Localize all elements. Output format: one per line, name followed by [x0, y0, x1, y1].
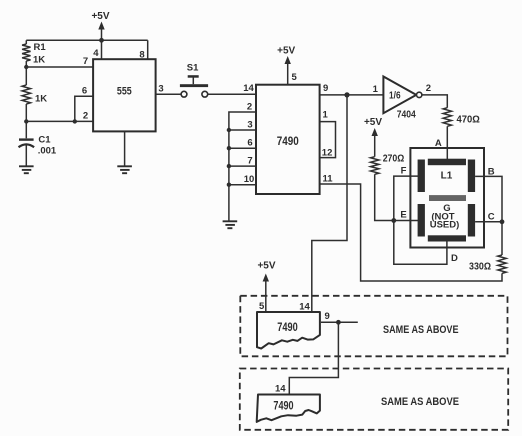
- wire pin 9 down to second counter pin 14: [312, 95, 347, 313]
- svg-text:B: B: [488, 166, 495, 177]
- svg-text:2: 2: [83, 110, 88, 121]
- svg-text:14: 14: [275, 384, 286, 395]
- svg-text:14: 14: [299, 302, 310, 313]
- node pin6 step joins pin2: [73, 119, 77, 123]
- svg-text:9: 9: [325, 311, 330, 322]
- svg-text:.001: .001: [38, 145, 57, 156]
- node C1 / pin2: [24, 119, 28, 123]
- wire pin 11 to 330 ohm: [320, 184, 502, 281]
- wire second 7490 pin 9 to third 7490 pin 14: [289, 322, 338, 395]
- wire pin 6 (7490): [229, 147, 256, 149]
- svg-text:11: 11: [323, 174, 334, 185]
- svg-text:2: 2: [247, 102, 252, 113]
- svg-text:330Ω: 330Ω: [469, 262, 491, 273]
- resistor 1K (lower): [25, 67, 27, 85]
- svg-text:F: F: [401, 165, 407, 176]
- ground (7490 bus): [223, 221, 238, 228]
- IC third 7490 (partial, torn): [257, 395, 320, 422]
- svg-text:C: C: [488, 211, 495, 222]
- svg-text:470Ω: 470Ω: [457, 114, 480, 125]
- svg-text:+5V: +5V: [364, 117, 382, 128]
- svg-text:+5V: +5V: [257, 261, 275, 272]
- svg-text:R1: R1: [34, 42, 47, 53]
- wire segment B: [475, 176, 502, 221]
- dashed box (second stage): [240, 296, 507, 357]
- svg-text:14: 14: [243, 83, 254, 94]
- capacitor C1: [25, 121, 27, 138]
- node pin7 / divider: [24, 65, 28, 69]
- svg-text:555: 555: [117, 86, 132, 98]
- svg-text:7490: 7490: [277, 134, 299, 148]
- wire pin 6 step: [75, 96, 93, 121]
- svg-text:5: 5: [259, 301, 265, 312]
- wire pin 7 (7490): [229, 165, 256, 167]
- svg-text:4: 4: [93, 48, 99, 59]
- node at +5V / pin4: [99, 38, 104, 43]
- svg-text:L1: L1: [441, 171, 453, 182]
- svg-text:+5V: +5V: [91, 11, 109, 22]
- svg-text:SAME AS ABOVE: SAME AS ABOVE: [381, 396, 459, 408]
- +5V arrow (second 7490): [263, 274, 269, 282]
- resistor 470 ohm: [443, 108, 451, 127]
- resistor 330 ohm: [498, 255, 506, 273]
- segment F bar: [418, 160, 425, 193]
- svg-text:1: 1: [373, 84, 379, 95]
- svg-text:5: 5: [292, 72, 298, 83]
- wire pin 2: [26, 120, 93, 122]
- segment G bar (not used): [429, 195, 466, 201]
- segment A bar: [428, 159, 466, 166]
- wire pin 10 (7490): [229, 184, 256, 186]
- inverter U3 1/6 7404: [383, 77, 416, 114]
- wire pin 4 drop: [101, 40, 103, 59]
- resistor R1: [25, 40, 27, 44]
- wire pin 9 to inverter: [320, 94, 384, 96]
- wire pin 7: [26, 66, 93, 68]
- svg-text:6: 6: [247, 138, 252, 149]
- wire S1 to pin 14: [208, 93, 256, 95]
- wire pin 8 drop: [147, 40, 149, 59]
- node pin 9 (second 7490): [336, 320, 341, 325]
- wire pin 9 stub (second 7490): [321, 321, 358, 323]
- node B/C junction: [500, 219, 505, 224]
- svg-text:3: 3: [158, 84, 163, 95]
- op-amp 555 IC box: [93, 59, 156, 131]
- svg-text:7: 7: [83, 56, 88, 67]
- svg-text:1K: 1K: [33, 55, 45, 66]
- svg-text:USED): USED): [430, 219, 460, 230]
- +5V arrow (7490 pin 5): [285, 56, 291, 64]
- dashed box (third stage): [240, 369, 508, 430]
- wire pin 1 to pin 12 loop: [320, 122, 336, 158]
- svg-text:6: 6: [82, 85, 87, 96]
- IC U2 7490 box: [256, 85, 320, 194]
- ground (555): [117, 166, 132, 173]
- wire pin 2 (7490): [229, 112, 256, 221]
- svg-text:270Ω: 270Ω: [383, 154, 405, 165]
- segment D bar: [428, 235, 466, 241]
- svg-text:1: 1: [323, 109, 329, 120]
- svg-text:D: D: [451, 253, 458, 264]
- wire segment F: [394, 176, 420, 220]
- svg-text:7404: 7404: [397, 108, 416, 120]
- node pin 9 branch: [344, 92, 349, 97]
- ground (C1): [19, 166, 34, 173]
- node E/F/D junction: [391, 218, 396, 223]
- IC second 7490 (partial, torn): [257, 312, 320, 349]
- svg-text:7490: 7490: [273, 399, 293, 413]
- svg-text:C1: C1: [38, 135, 51, 146]
- svg-text:9: 9: [323, 83, 328, 94]
- svg-text:7: 7: [247, 156, 252, 167]
- segment E bar: [418, 204, 425, 237]
- +5V arrow (555): [98, 22, 104, 30]
- svg-text:3: 3: [247, 120, 252, 131]
- svg-text:+5V: +5V: [277, 46, 295, 57]
- svg-text:S1: S1: [187, 63, 199, 74]
- wire segment D loop: [394, 221, 447, 265]
- wire segment C: [475, 222, 502, 255]
- +5V arrow (270 ohm): [372, 128, 378, 136]
- wire 470 ohm to segment A: [446, 126, 448, 161]
- resistor 270 ohm: [371, 157, 379, 175]
- svg-text:E: E: [400, 209, 406, 220]
- wire 555 ground lead: [124, 131, 126, 165]
- svg-text:2: 2: [426, 83, 431, 94]
- svg-text:7490: 7490: [277, 320, 298, 334]
- svg-text:SAME AS ABOVE: SAME AS ABOVE: [383, 324, 459, 336]
- svg-text:12: 12: [322, 148, 333, 159]
- wire +5V rail top: [26, 39, 147, 41]
- svg-text:1/6: 1/6: [389, 91, 401, 102]
- segment C bar: [468, 204, 475, 237]
- svg-text:10: 10: [244, 174, 255, 185]
- display L1 outer box: [410, 148, 484, 248]
- wire inverter output: [422, 95, 447, 108]
- wire pin 3 (7490): [229, 129, 256, 131]
- wire pin 3 output: [156, 93, 182, 95]
- segment B bar: [468, 160, 475, 193]
- wire 270 ohm to segment E: [375, 174, 420, 220]
- svg-text:1K: 1K: [35, 93, 47, 104]
